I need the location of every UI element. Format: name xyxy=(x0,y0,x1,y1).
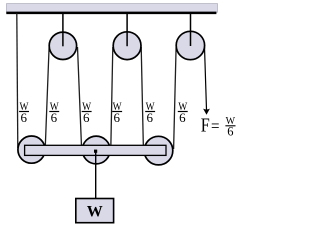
svg-text:6: 6 xyxy=(83,110,90,125)
svg-text:6: 6 xyxy=(147,110,154,125)
svg-text:=: = xyxy=(211,116,220,136)
svg-text:6: 6 xyxy=(114,110,121,125)
svg-text:6: 6 xyxy=(51,110,58,125)
svg-text:6: 6 xyxy=(179,110,186,125)
svg-text:6: 6 xyxy=(20,110,27,125)
svg-text:6: 6 xyxy=(227,125,233,139)
svg-text:W: W xyxy=(87,204,103,221)
svg-text:F: F xyxy=(201,115,210,137)
